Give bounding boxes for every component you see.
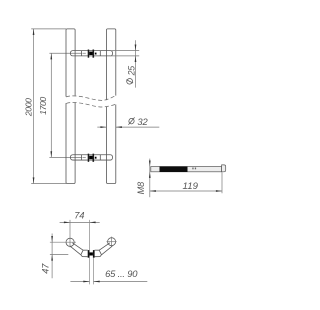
bottom support set screw dot [95, 157, 97, 159]
bottom support flange disc right [93, 154, 95, 162]
dimension 2000 line [33, 29, 35, 184]
top support bolt [89, 52, 92, 55]
dimension 1700 line [50, 54, 52, 158]
dimension 119 arrow left [150, 190, 156, 192]
svg-text:25: 25 [127, 66, 137, 77]
svg-text:119: 119 [182, 181, 198, 192]
right circle centerline horizontal [107, 241, 117, 243]
dimension 47 arrow top [51, 236, 53, 242]
dimension 65-90 line right [94, 281, 148, 283]
top support flange disc left [88, 50, 90, 58]
dimension 1700 arrow top [50, 53, 52, 59]
stud rod [151, 167, 222, 172]
bottom support axis stub [83, 156, 86, 158]
door face line right [92, 258, 94, 285]
dimension 65-90 arrow right [94, 281, 100, 283]
clamp disc left [88, 250, 90, 258]
top support set screw dot [95, 53, 97, 55]
dimension 47 arrow bottom [51, 255, 53, 261]
right arm cone [95, 250, 102, 257]
left arm cylinder [70, 243, 83, 255]
dimension d25 arrow bottom [135, 56, 137, 62]
svg-text:32: 32 [137, 116, 148, 127]
top support axis stub [83, 52, 86, 54]
dimension M8 line [149, 159, 151, 198]
dimension d32 arrow left [100, 126, 106, 128]
left circle centerline vertical [69, 220, 71, 247]
right arm cylinder [99, 243, 112, 255]
dimension 74 arrow right [90, 222, 96, 224]
dimension d25 arrow top [135, 45, 137, 51]
door face line left [89, 220, 91, 285]
dimension 74 arrow left [64, 222, 70, 224]
left tube lower segment [66, 102, 75, 183]
left circle centerline horizontal [50, 241, 76, 243]
top support capsule [70, 51, 112, 56]
svg-text:2000: 2000 [24, 98, 34, 117]
svg-text:1700: 1700 [38, 97, 48, 115]
dimension 2000 arrow bottom [33, 177, 35, 183]
bottom support flange disc left [88, 154, 90, 162]
svg-text:47: 47 [40, 263, 50, 274]
top support flange disc right [93, 50, 95, 58]
right circle centerline vertical [111, 237, 113, 247]
dimension d25 line [135, 40, 137, 87]
dimension 47 line [51, 234, 53, 279]
dimension 119 line [150, 190, 222, 192]
left tube upper segment [66, 29, 75, 97]
bottom support capsule [70, 155, 112, 160]
stud head [222, 165, 226, 172]
dimension 1700 extension line top [49, 52, 81, 54]
clamp bolt [89, 252, 93, 255]
dimension 65-90 line left [70, 281, 89, 283]
bottom support bolt [89, 156, 92, 159]
dimension 74 line [60, 221, 100, 223]
dimension d25 extension lines [111, 51, 140, 56]
left tube section circle [66, 238, 74, 246]
break line lower [66, 103, 115, 107]
dimension 1700 arrow bottom [50, 151, 52, 157]
dimension M8 arrow bottom [149, 172, 151, 178]
dimension d32 arrow right [116, 126, 122, 128]
svg-text:M8: M8 [136, 181, 146, 194]
left arm cone [81, 250, 88, 257]
dimension 119 extension right [221, 172, 223, 193]
svg-text:74: 74 [74, 209, 84, 220]
right tube lower segment [107, 105, 116, 184]
dimension d32 text [128, 116, 148, 127]
dimension 65-90 arrow left [83, 281, 89, 283]
dimension 119 arrow right [216, 190, 222, 192]
dimension 1700 extension line bottom [49, 156, 81, 158]
stud threaded section [160, 166, 188, 172]
dimension 47 extension bottom [50, 254, 68, 256]
svg-text:65 ... 90: 65 ... 90 [105, 268, 138, 279]
right tube section circle [108, 238, 116, 246]
dimension d32 leader left tail [97, 126, 106, 128]
clamp disc right [93, 250, 95, 258]
right tube upper segment [107, 29, 116, 100]
dimension 2000 arrow top [33, 29, 35, 35]
dimension 2000 extension line top [31, 28, 66, 30]
dimension 2000 extension line bottom [31, 183, 66, 185]
dimension d32 right tail [116, 126, 160, 128]
dimension d25 text [126, 66, 137, 85]
break line upper [66, 96, 116, 101]
dimension M8 arrow top [149, 161, 151, 167]
stud middle marks [192, 168, 193, 170]
